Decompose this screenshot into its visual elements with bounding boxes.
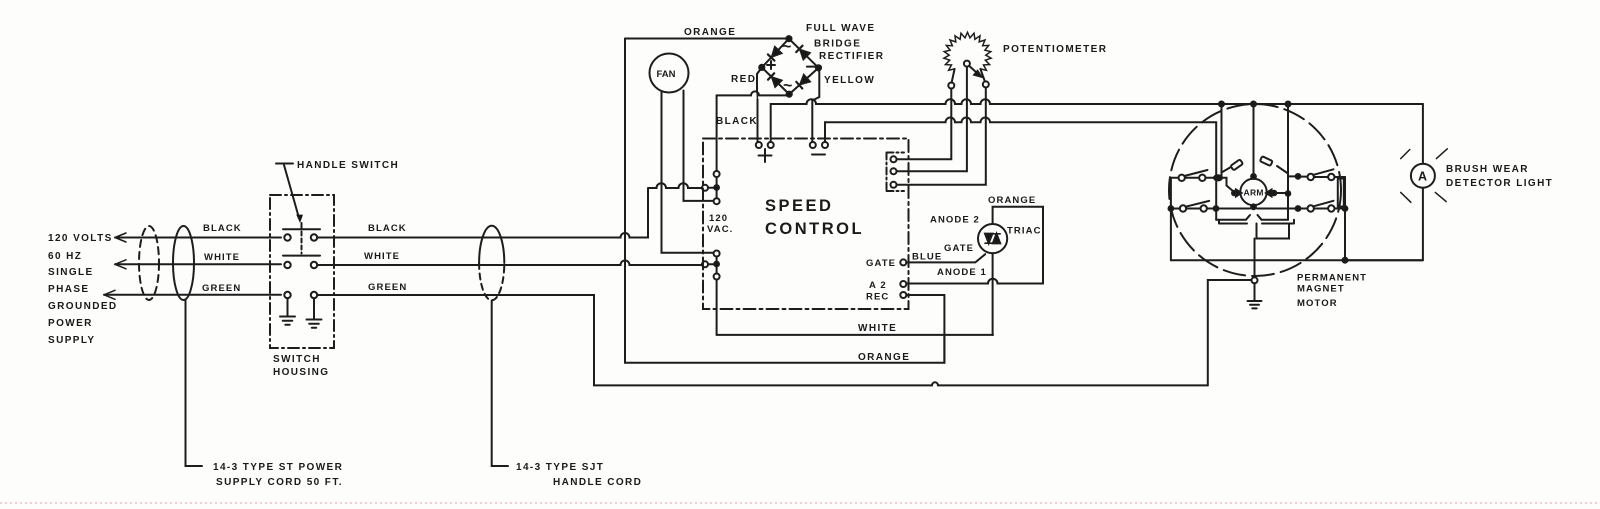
- motor feed verticals: [1222, 104, 1231, 178]
- svg-text:WHITE: WHITE: [204, 252, 240, 263]
- ground stem and symbol: [1254, 239, 1256, 278]
- handle switch label + leader: [276, 164, 299, 219]
- handle cord ellipse: [479, 226, 504, 263]
- bridge ac horizontal: [717, 91, 788, 95]
- svg-text:VAC.: VAC.: [707, 224, 733, 235]
- gate wire blue: [906, 254, 985, 262]
- left contact row 1: [1179, 175, 1185, 181]
- ground wire to green: [1208, 280, 1252, 385]
- speed control top terminals: [756, 142, 762, 148]
- svg-text:14-3 TYPE SJT: 14-3 TYPE SJT: [516, 462, 604, 473]
- brushes: [1230, 156, 1272, 170]
- left vertex drop to +1: [757, 67, 762, 142]
- wire white to speed control: [317, 261, 702, 266]
- bridge marks: [782, 39, 792, 95]
- wire white supply with arrow: [115, 263, 281, 265]
- svg-text:ORANGE: ORANGE: [988, 195, 1036, 206]
- svg-text:120 VOLTS: 120 VOLTS: [48, 233, 113, 244]
- ground right in housing: [307, 298, 322, 328]
- svg-text:SWITCH: SWITCH: [273, 354, 321, 365]
- svg-text:WHITE: WHITE: [858, 323, 897, 334]
- field bar right: [1338, 179, 1344, 207]
- lower left terminals: [702, 261, 708, 267]
- svg-text:HANDLE CORD: HANDLE CORD: [553, 477, 642, 488]
- gate terminal: [900, 259, 906, 265]
- terminal block right of speed control: [887, 153, 905, 192]
- triac bottom lead: [992, 253, 994, 335]
- svg-text:RED: RED: [731, 74, 756, 85]
- triac: [978, 224, 1007, 253]
- speed control box: [703, 139, 909, 310]
- svg-text:REC: REC: [866, 292, 889, 303]
- svg-text:BRIDGE: BRIDGE: [814, 39, 861, 50]
- svg-text:GREEN: GREEN: [368, 282, 407, 293]
- svg-text:TRIAC: TRIAC: [1007, 226, 1042, 237]
- svg-text:BLUE: BLUE: [912, 252, 942, 263]
- diode top-right: [800, 50, 810, 60]
- triac labels: [930, 195, 1042, 278]
- potentiometer: [944, 32, 991, 70]
- bridge labels: [716, 23, 884, 127]
- ground left in housing: [280, 298, 295, 325]
- svg-text:SPEED: SPEED: [765, 197, 833, 215]
- wire label black mid: [368, 223, 407, 234]
- -1 drop from right vertex: [812, 68, 819, 142]
- svg-text:GATE: GATE: [944, 243, 974, 254]
- plus minus marks: [759, 149, 826, 162]
- svg-text:ARM: ARM: [1244, 188, 1264, 198]
- arm circle: [1240, 179, 1266, 205]
- svg-text:ORANGE: ORANGE: [858, 352, 910, 363]
- -2 drop and bus2: [825, 118, 1216, 220]
- svg-text:BRUSH WEAR: BRUSH WEAR: [1446, 164, 1529, 175]
- svg-text:A: A: [1418, 170, 1427, 184]
- svg-text:14-3 TYPE ST POWER: 14-3 TYPE ST POWER: [213, 462, 343, 473]
- rec wire to white node: [906, 295, 944, 363]
- wire label black left: [203, 223, 242, 234]
- green terminals in housing: [284, 292, 290, 298]
- diode bottom-left: [772, 77, 782, 87]
- diode bottom-right: [800, 75, 810, 84]
- right contact row 2: [1296, 206, 1301, 211]
- a2 wire loop to triac top: [906, 207, 1043, 284]
- svg-text:FULL WAVE: FULL WAVE: [806, 23, 875, 34]
- wire green supply with arrow: [104, 294, 281, 296]
- supply text block: [48, 233, 118, 346]
- a2 rec terminals: [900, 281, 906, 287]
- switch pole black: contacts: [284, 234, 290, 240]
- wire lower terminal to white internal: [717, 280, 993, 335]
- svg-text:FAN: FAN: [657, 69, 676, 80]
- 120 VAC label: [707, 213, 733, 235]
- fan label: [657, 69, 676, 80]
- switch housing: [270, 195, 334, 348]
- +2 drop and bus1: [771, 99, 1423, 142]
- svg-text:RECTIFIER: RECTIFIER: [819, 51, 884, 62]
- svg-text:60 HZ: 60 HZ: [48, 251, 82, 262]
- fan: [650, 54, 689, 93]
- motor bottom line: [1171, 259, 1423, 261]
- right contact row 1: [1296, 174, 1301, 179]
- wire label white left: [204, 252, 240, 263]
- svg-text:120: 120: [709, 213, 728, 224]
- power cord ellipse solid: [173, 226, 194, 300]
- 120vac node wire (black): [648, 183, 702, 192]
- power cord ellipse dashed: [139, 226, 159, 300]
- svg-text:POWER: POWER: [48, 318, 93, 329]
- svg-text:ORANGE: ORANGE: [684, 27, 736, 38]
- svg-text:SUPPLY: SUPPLY: [48, 335, 96, 346]
- handle cord leader: [492, 301, 508, 467]
- motor dashed circle: [1169, 104, 1341, 276]
- brush wear detector light: [1345, 104, 1423, 260]
- svg-text:SINGLE: SINGLE: [48, 267, 94, 278]
- bus1 junction dots: [1219, 102, 1224, 107]
- fan lead 1: [662, 92, 714, 253]
- svg-text:GREEN: GREEN: [202, 283, 241, 294]
- svg-text:POTENTIOMETER: POTENTIOMETER: [1003, 44, 1107, 55]
- svg-text:SUPPLY CORD 50 FT.: SUPPLY CORD 50 FT.: [216, 477, 343, 488]
- upper left terminals: [702, 185, 708, 191]
- right outer vertical: [1344, 177, 1346, 260]
- svg-text:YELLOW: YELLOW: [824, 75, 875, 86]
- light rays: [1401, 149, 1448, 203]
- svg-text:GATE: GATE: [866, 258, 896, 269]
- svg-text:HANDLE SWITCH: HANDLE SWITCH: [297, 160, 399, 171]
- svg-text:CONTROL: CONTROL: [765, 220, 864, 238]
- svg-text:A 2: A 2: [869, 280, 887, 291]
- svg-text:GROUNDED: GROUNDED: [48, 301, 118, 312]
- left contact row 2: [1180, 205, 1186, 211]
- wire from bridge ac to terminal: [716, 95, 718, 171]
- block wires to pot: [897, 89, 952, 160]
- svg-text:MAGNET: MAGNET: [1297, 284, 1345, 295]
- svg-text:BLACK: BLACK: [368, 223, 407, 234]
- svg-text:ANODE 2: ANODE 2: [930, 215, 980, 226]
- svg-text:PHASE: PHASE: [48, 284, 89, 295]
- wire label white mid: [364, 251, 400, 262]
- switch pole white: contacts: [284, 262, 290, 268]
- power cord leader: [186, 300, 203, 466]
- svg-text:ANODE 1: ANODE 1: [937, 267, 987, 278]
- arm side arrows: [1232, 191, 1237, 196]
- svg-text:BLACK: BLACK: [203, 223, 242, 234]
- diode top-left: [772, 47, 781, 57]
- motor labels: [1297, 273, 1367, 310]
- full wave bridge rectifier diamond: [762, 39, 819, 94]
- svg-text:PERMANENT: PERMANENT: [1297, 273, 1367, 284]
- fan lead 2: [684, 91, 714, 201]
- wire black to speed control: [317, 192, 648, 238]
- wire label green left: [202, 283, 241, 294]
- svg-text:HOUSING: HOUSING: [273, 367, 329, 378]
- svg-text:WHITE: WHITE: [364, 251, 400, 262]
- svg-text:DETECTOR LIGHT: DETECTOR LIGHT: [1446, 178, 1553, 189]
- orange wire top and left drop: [625, 38, 787, 40]
- mechanical link dashed: [301, 232, 303, 254]
- svg-text:BLACK: BLACK: [716, 116, 758, 127]
- interior loops below arm: [1216, 215, 1250, 220]
- wire black supply with arrow: [115, 237, 281, 239]
- left outer vertical: [1170, 178, 1172, 260]
- wire green down and along bottom: [317, 295, 1208, 385]
- wire label green mid: [368, 282, 407, 293]
- svg-text:~: ~: [783, 78, 792, 95]
- left z wire to arm: [1216, 178, 1234, 192]
- pot wiper arrow: [969, 66, 977, 73]
- svg-text:~: ~: [782, 39, 791, 56]
- svg-text:MOTOR: MOTOR: [1297, 298, 1338, 309]
